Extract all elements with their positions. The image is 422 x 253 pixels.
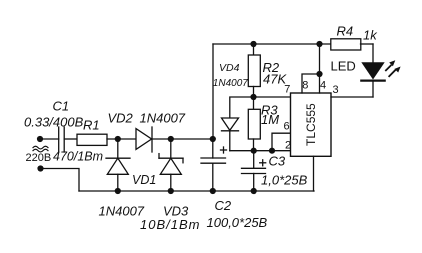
wire node 2/6 <box>230 150 291 152</box>
LED emission arrows <box>386 60 401 76</box>
svg-text:0.33/400В: 0.33/400В <box>24 115 84 130</box>
node VD1 bottom <box>115 188 121 194</box>
node VD3 top <box>168 136 174 142</box>
node pin6 jog <box>269 148 275 154</box>
wire VCC riser <box>212 44 214 139</box>
svg-text:C2: C2 <box>215 198 232 213</box>
svg-text:1M: 1M <box>261 112 279 127</box>
svg-text:VD2: VD2 <box>108 111 134 126</box>
wire pin1 ground <box>313 156 315 191</box>
svg-text:1N4007: 1N4007 <box>99 204 145 219</box>
diode VD4 <box>222 97 254 151</box>
wire bottom terminal down <box>41 169 80 192</box>
node VD3 bottom <box>168 188 174 194</box>
resistor R4 <box>331 39 361 50</box>
input terminal top <box>37 136 43 142</box>
wire pin8 <box>302 74 320 93</box>
op-amp/timer U1 TLC555 <box>291 93 332 156</box>
wire R1 to VD2 <box>107 138 136 140</box>
diode VD2 <box>136 129 152 150</box>
svg-text:470/1Вт: 470/1Вт <box>53 150 103 164</box>
svg-text:R4: R4 <box>337 24 354 39</box>
node after R1 <box>115 136 121 142</box>
node C3 bottom <box>251 188 257 194</box>
resistor R3 <box>248 97 260 151</box>
node pin4 top <box>316 41 322 47</box>
svg-text:8: 8 <box>302 80 308 92</box>
svg-text:2: 2 <box>285 139 291 151</box>
wire C1 to R1 <box>64 138 77 140</box>
svg-text:10В/1Вт: 10В/1Вт <box>140 217 200 232</box>
svg-text:3: 3 <box>333 84 339 96</box>
svg-text:1N4007: 1N4007 <box>213 78 248 89</box>
svg-text:6: 6 <box>284 121 290 133</box>
capacitor C1 <box>58 127 60 152</box>
capacitor C2 <box>201 139 227 191</box>
wire pin6 <box>272 133 291 151</box>
node R2 top <box>250 41 256 47</box>
svg-text:1k: 1k <box>363 28 378 43</box>
svg-text:1,0*25В: 1,0*25В <box>261 173 308 188</box>
wire VD2 to riser <box>152 138 213 140</box>
wire bottom rail <box>79 190 314 192</box>
diode VD1 <box>106 139 130 191</box>
AC source squiggle <box>33 146 48 149</box>
svg-text:C3: C3 <box>269 154 286 169</box>
input terminal bottom <box>37 165 43 171</box>
svg-text:1N4007: 1N4007 <box>140 111 186 126</box>
svg-text:R1: R1 <box>83 118 100 133</box>
svg-text:VD4: VD4 <box>219 62 240 74</box>
resistor R1 <box>77 134 107 145</box>
svg-text:220В: 220В <box>26 152 52 164</box>
wire top terminal to C1 <box>40 138 59 140</box>
wire top rail <box>213 43 331 45</box>
node C2 bottom <box>210 188 216 194</box>
node C2 top / riser <box>210 136 216 142</box>
resistor R2 <box>248 44 260 97</box>
svg-text:4: 4 <box>320 80 326 92</box>
svg-text:LED: LED <box>331 59 356 74</box>
LED <box>361 44 384 97</box>
node R3/C3 <box>251 148 257 154</box>
capacitor C3 <box>242 151 266 191</box>
wire pin4 <box>319 44 321 93</box>
svg-text:7: 7 <box>284 84 290 96</box>
svg-text:TLC555: TLC555 <box>304 103 318 146</box>
wire pin7 <box>254 96 291 98</box>
svg-text:VD1: VD1 <box>132 173 156 187</box>
svg-text:100,0*25В: 100,0*25В <box>207 215 268 230</box>
node pin7 <box>250 94 256 100</box>
wire pin3 <box>331 96 373 98</box>
zener diode VD3 <box>159 139 183 191</box>
svg-text:C1: C1 <box>53 99 70 114</box>
node pin8/pin4 <box>316 71 322 77</box>
wire R4 to LED <box>361 43 374 45</box>
